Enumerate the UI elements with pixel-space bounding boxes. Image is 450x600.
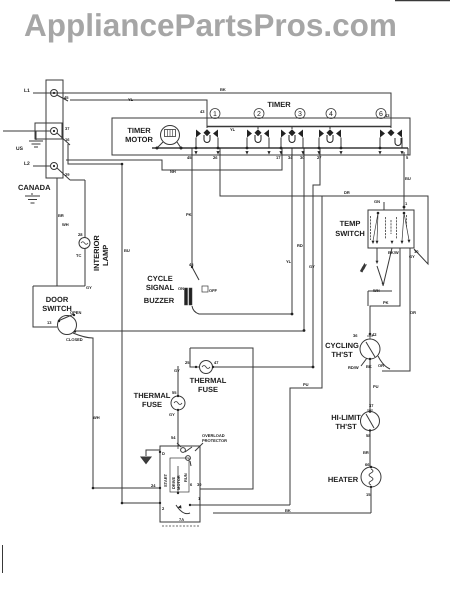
svg-text:OPEN: OPEN bbox=[70, 310, 81, 315]
svg-text:L1: L1 bbox=[24, 88, 30, 94]
svg-text:6: 6 bbox=[190, 482, 193, 487]
svg-text:YL: YL bbox=[286, 259, 292, 264]
svg-text:43: 43 bbox=[385, 113, 390, 118]
svg-text:GN: GN bbox=[374, 199, 380, 204]
svg-text:PROTECTOR: PROTECTOR bbox=[202, 438, 227, 443]
svg-text:PU: PU bbox=[303, 382, 309, 387]
svg-text:2: 2 bbox=[162, 506, 165, 511]
svg-text:FUSE: FUSE bbox=[198, 385, 218, 394]
svg-text:SWITCH: SWITCH bbox=[42, 304, 72, 313]
svg-text:43: 43 bbox=[200, 109, 205, 114]
svg-text:BR: BR bbox=[58, 213, 64, 218]
svg-text:TH'ST: TH'ST bbox=[331, 350, 353, 359]
svg-text:GY: GY bbox=[169, 412, 175, 417]
svg-text:GY: GY bbox=[174, 368, 180, 373]
svg-text:ON: ON bbox=[178, 286, 184, 291]
svg-text:CLOSED: CLOSED bbox=[66, 337, 83, 342]
svg-text:YL: YL bbox=[128, 97, 134, 102]
svg-text:45: 45 bbox=[187, 155, 192, 160]
svg-text:BUZZER: BUZZER bbox=[144, 296, 175, 305]
svg-text:GY: GY bbox=[86, 285, 92, 290]
svg-text:YL: YL bbox=[230, 127, 236, 132]
svg-text:PU: PU bbox=[373, 384, 379, 389]
svg-text:OR: OR bbox=[378, 363, 384, 368]
svg-text:3: 3 bbox=[298, 111, 302, 118]
svg-text:NH: NH bbox=[170, 169, 176, 174]
svg-text:54: 54 bbox=[171, 435, 176, 440]
svg-text:TIMER: TIMER bbox=[267, 100, 291, 109]
svg-text:37: 37 bbox=[369, 403, 374, 408]
svg-text:4: 4 bbox=[329, 111, 333, 118]
svg-text:BK: BK bbox=[366, 364, 372, 369]
svg-text:TEMP: TEMP bbox=[340, 219, 361, 228]
svg-text:BU: BU bbox=[405, 176, 411, 181]
svg-text:HEATER: HEATER bbox=[328, 475, 359, 484]
svg-text:7A: 7A bbox=[179, 517, 184, 522]
svg-text:THERMAL: THERMAL bbox=[134, 391, 171, 400]
svg-text:START: START bbox=[163, 473, 168, 487]
svg-text:BK: BK bbox=[285, 508, 291, 513]
svg-text:DOOR: DOOR bbox=[46, 295, 69, 304]
svg-text:36: 36 bbox=[353, 333, 358, 338]
svg-text:CYCLING: CYCLING bbox=[325, 341, 359, 350]
svg-text:1: 1 bbox=[213, 111, 217, 118]
svg-text:30: 30 bbox=[197, 482, 202, 487]
svg-text:28: 28 bbox=[78, 232, 83, 237]
svg-text:US: US bbox=[16, 146, 24, 152]
svg-text:10: 10 bbox=[414, 249, 419, 254]
svg-text:GY: GY bbox=[309, 264, 315, 269]
svg-text:CYCLE: CYCLE bbox=[147, 274, 172, 283]
svg-text:PK: PK bbox=[383, 300, 389, 305]
svg-text:30: 30 bbox=[300, 155, 305, 160]
svg-text:1: 1 bbox=[405, 201, 408, 206]
svg-text:THERMAL: THERMAL bbox=[190, 376, 227, 385]
svg-text:PK: PK bbox=[186, 212, 192, 217]
svg-text:FUSE: FUSE bbox=[142, 400, 162, 409]
svg-text:SIGNAL: SIGNAL bbox=[146, 283, 175, 292]
svg-text:5: 5 bbox=[406, 155, 409, 160]
svg-text:BK/W: BK/W bbox=[388, 250, 399, 255]
svg-text:OFF: OFF bbox=[209, 288, 218, 293]
svg-text:2: 2 bbox=[257, 111, 261, 118]
svg-text:CANADA: CANADA bbox=[18, 183, 51, 192]
svg-text:WH: WH bbox=[373, 288, 380, 293]
svg-text:RD: RD bbox=[297, 243, 303, 248]
svg-text:25: 25 bbox=[185, 360, 190, 365]
svg-text:47: 47 bbox=[214, 360, 219, 365]
svg-text:45: 45 bbox=[64, 95, 69, 100]
svg-text:SWITCH: SWITCH bbox=[335, 229, 365, 238]
svg-text:27: 27 bbox=[317, 155, 322, 160]
svg-text:DR: DR bbox=[344, 190, 350, 195]
svg-text:BR: BR bbox=[363, 450, 369, 455]
svg-text:INTERIOR: INTERIOR bbox=[92, 235, 101, 271]
svg-text:TC: TC bbox=[76, 253, 81, 258]
svg-text:24: 24 bbox=[151, 483, 156, 488]
svg-text:17: 17 bbox=[276, 155, 281, 160]
svg-text:16: 16 bbox=[65, 137, 70, 142]
svg-text:66: 66 bbox=[365, 462, 370, 467]
svg-text:13: 13 bbox=[47, 320, 52, 325]
svg-text:37: 37 bbox=[65, 126, 70, 131]
svg-text:BK: BK bbox=[220, 87, 226, 92]
svg-text:BU: BU bbox=[124, 248, 130, 253]
svg-text:MOTOR: MOTOR bbox=[125, 135, 153, 144]
svg-text:WH: WH bbox=[62, 222, 69, 227]
svg-text:HI-LIMIT: HI-LIMIT bbox=[331, 413, 361, 422]
svg-text:GY: GY bbox=[409, 254, 415, 259]
svg-text:58: 58 bbox=[366, 433, 371, 438]
svg-text:55: 55 bbox=[172, 390, 177, 395]
svg-text:L2: L2 bbox=[24, 161, 30, 167]
svg-text:TH'ST: TH'ST bbox=[335, 422, 357, 431]
svg-text:6: 6 bbox=[379, 111, 383, 118]
svg-text:1: 1 bbox=[198, 496, 201, 501]
svg-text:29: 29 bbox=[65, 172, 70, 177]
svg-text:WH: WH bbox=[93, 415, 100, 420]
svg-text:MOTOR: MOTOR bbox=[176, 475, 181, 490]
svg-text:D: D bbox=[162, 451, 165, 456]
svg-text:34: 34 bbox=[288, 155, 293, 160]
svg-text:LAMP: LAMP bbox=[101, 245, 110, 266]
svg-text:TIMER: TIMER bbox=[127, 126, 151, 135]
svg-text:15: 15 bbox=[366, 492, 371, 497]
svg-text:RD/W: RD/W bbox=[348, 365, 359, 370]
svg-text:26: 26 bbox=[213, 155, 218, 160]
svg-text:OR: OR bbox=[410, 310, 416, 315]
svg-text:RUN: RUN bbox=[183, 473, 188, 482]
